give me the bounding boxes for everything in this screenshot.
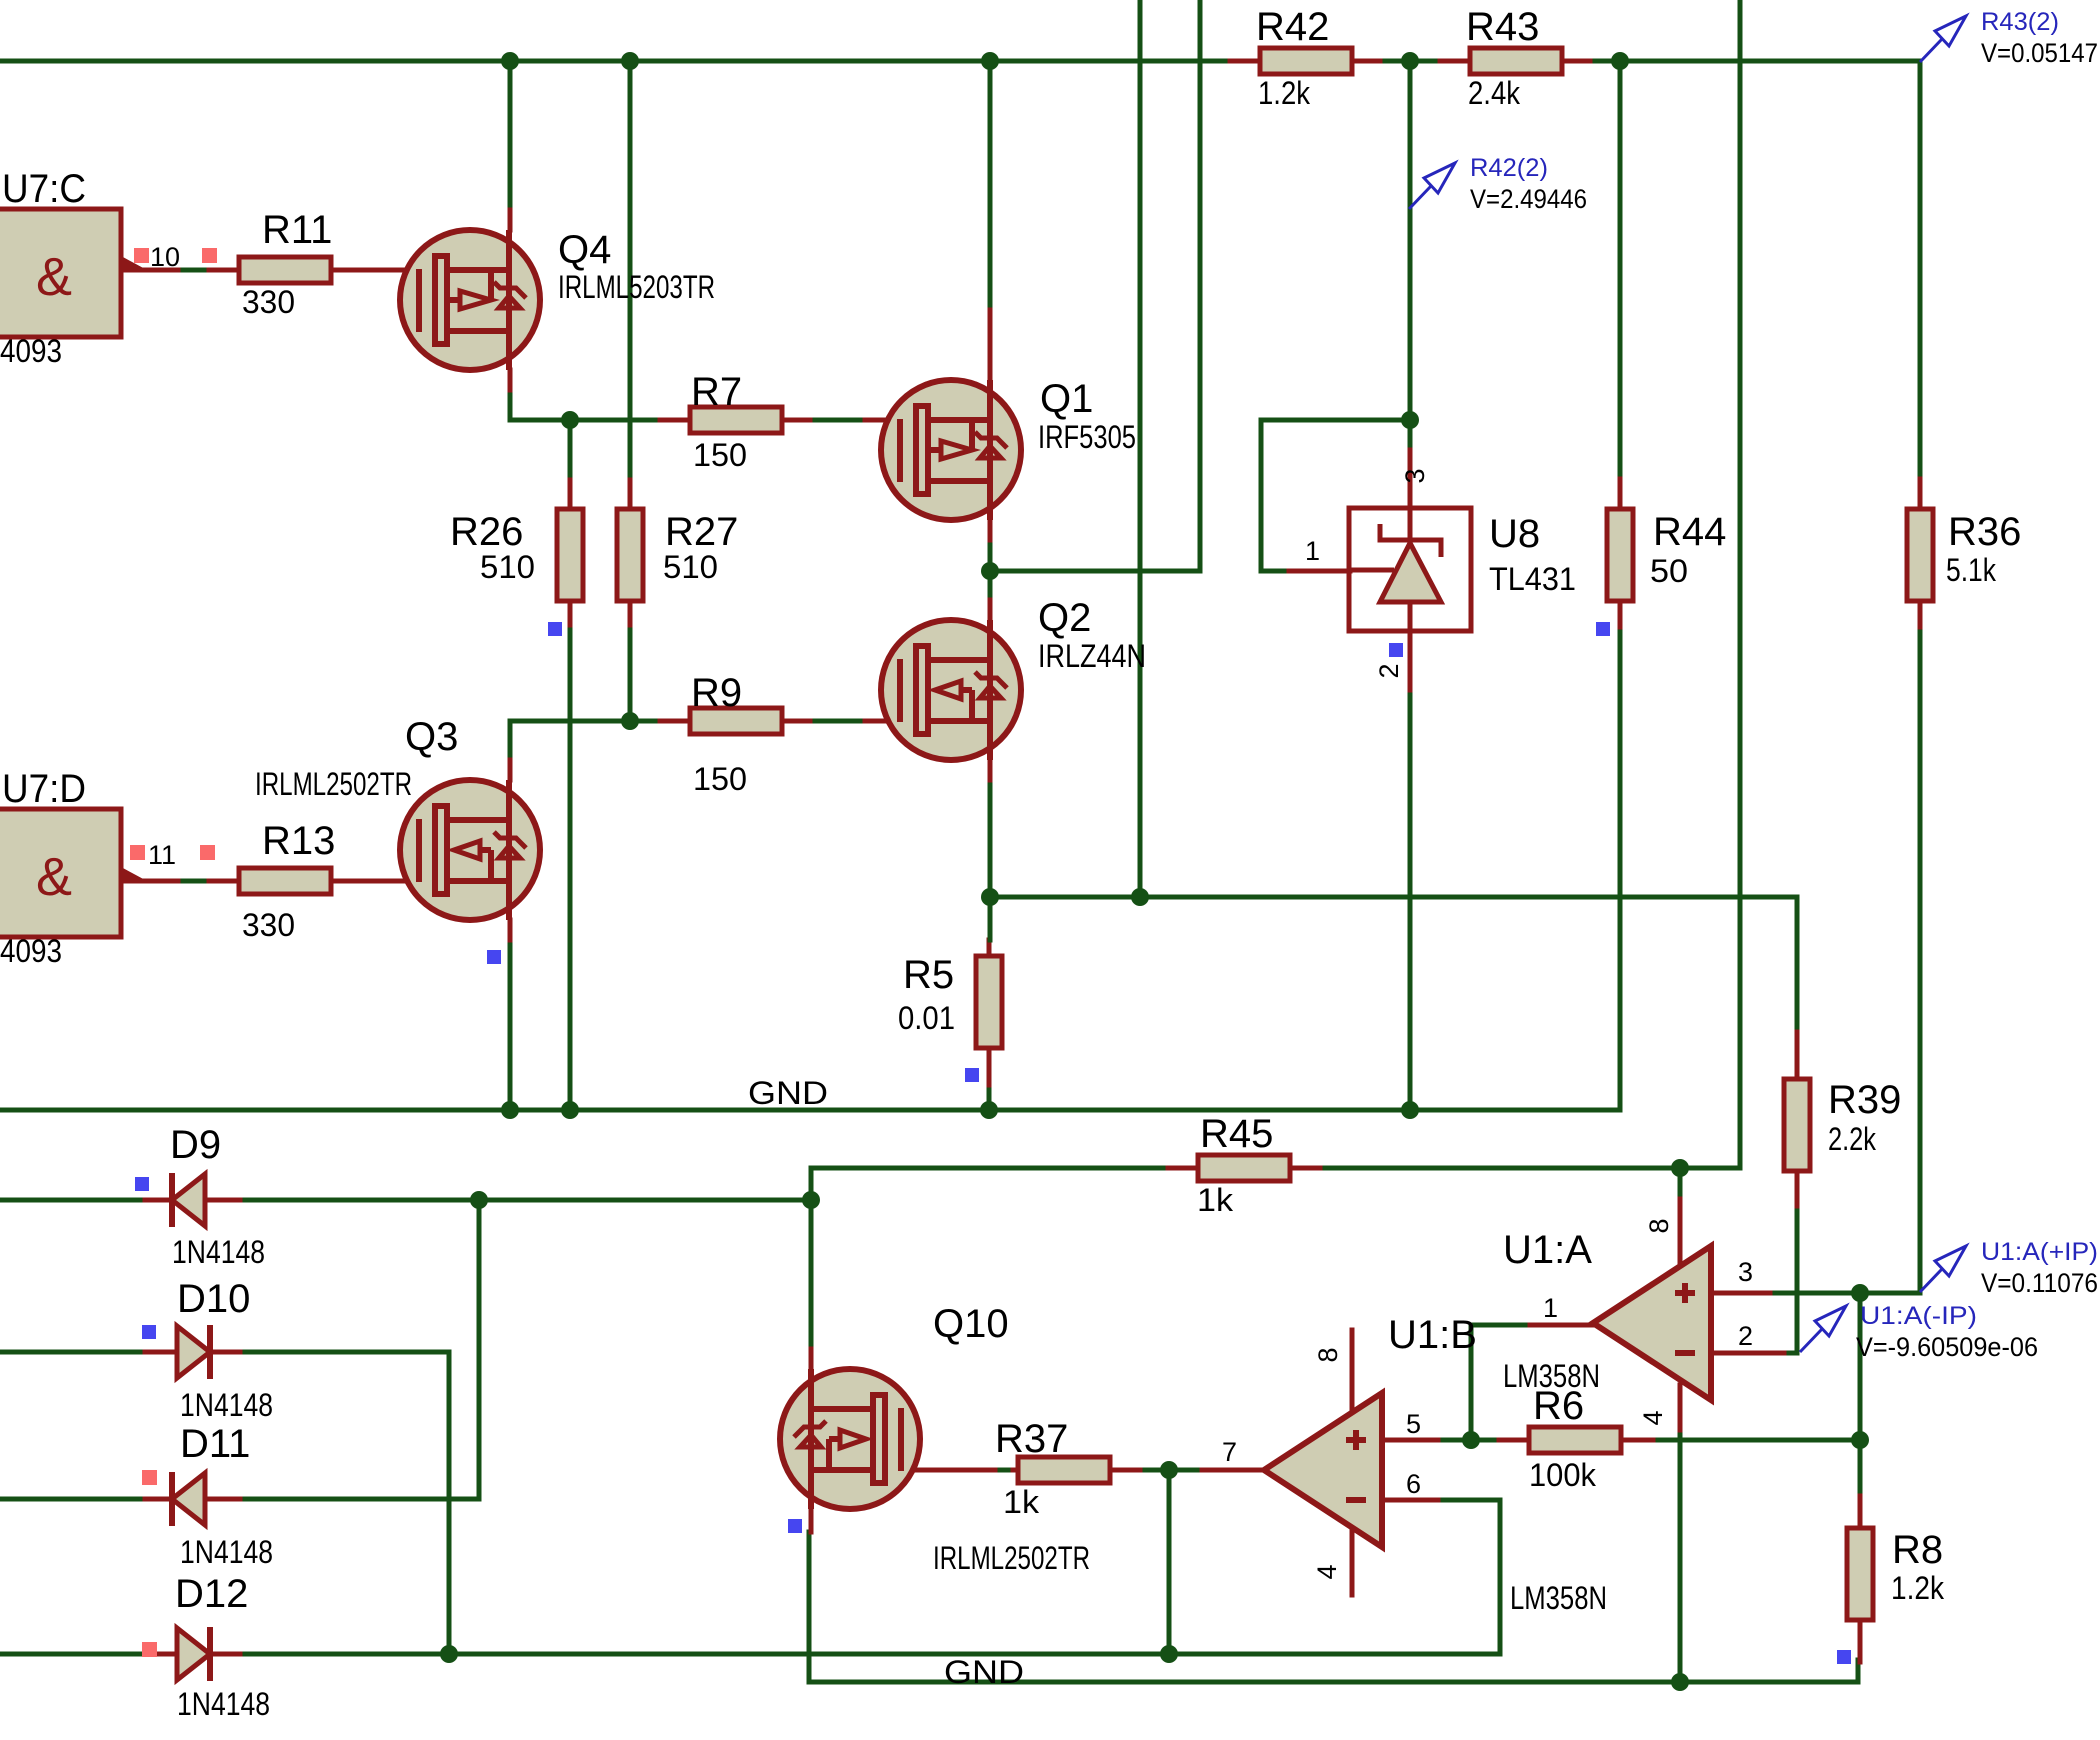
svg-text:10: 10 — [150, 242, 180, 272]
svg-text:6: 6 — [1406, 1469, 1421, 1499]
resistor R13 — [239, 819, 335, 943]
svg-text:1.2k: 1.2k — [1258, 75, 1311, 111]
svg-text:1k: 1k — [1003, 1484, 1040, 1520]
pin R27 bottom stub — [628, 600, 633, 625]
wire U1:B pin6 down to lower net — [1438, 1500, 1500, 1654]
wire R27 bottom to R9 row — [628, 625, 633, 721]
pin R26 top stub — [568, 480, 573, 509]
marker pin10 state b — [202, 248, 217, 263]
svg-text:2: 2 — [1374, 663, 1404, 678]
svg-text:Q10: Q10 — [933, 1302, 1009, 1346]
svg-text:2.4k: 2.4k — [1468, 75, 1521, 111]
resistor R8 — [1847, 1528, 1945, 1620]
svg-text:1N4148: 1N4148 — [180, 1534, 273, 1570]
pin U8 cathode pin3 — [1408, 450, 1413, 539]
svg-text:U7:D: U7:D — [2, 767, 86, 811]
node Q1/Q2 midpoint — [981, 562, 999, 580]
pin U1:B pin8 stub — [1350, 1330, 1355, 1414]
transistor Q10 IRLML2502TR (N-MOSFET, mirrored) — [780, 1369, 920, 1509]
transistor Q1 IRF5305 (P-MOSFET) — [881, 380, 1021, 520]
svg-text:5: 5 — [1406, 1409, 1421, 1439]
wire vertical from top edge x=1740 down to R45 net — [1738, 0, 1743, 1168]
probe U1:A(+IP) — [1920, 1238, 2098, 1298]
marker pin10 state a — [134, 248, 149, 263]
pin R43 left stub — [1440, 59, 1470, 64]
svg-text:U7:C: U7:C — [2, 167, 86, 211]
svg-text:R42: R42 — [1256, 5, 1329, 49]
node R9-R27 — [621, 712, 639, 730]
resistor R9 — [690, 671, 782, 797]
marker R44 blue — [1596, 622, 1610, 636]
probe R42(2) — [1409, 154, 1587, 214]
diode D11 1N4148 — [172, 1422, 273, 1570]
node U1:B pin5-R6-feedback — [1462, 1431, 1480, 1449]
svg-text:8: 8 — [1313, 1347, 1343, 1362]
svg-text:R13: R13 — [262, 819, 335, 863]
pin R6 left stub — [1499, 1438, 1529, 1443]
svg-text:1: 1 — [1305, 536, 1320, 566]
gate U7:C (4093 NAND) — [0, 167, 121, 369]
svg-text:Q1: Q1 — [1040, 377, 1093, 421]
svg-text:1N4148: 1N4148 — [180, 1387, 273, 1423]
node GND-Q3 — [501, 1101, 519, 1119]
pin R11 right to Q4 gate — [331, 268, 419, 273]
diode D9 1N4148 — [170, 1123, 265, 1270]
svg-text:Q4: Q4 — [558, 228, 611, 272]
svg-text:R43(2): R43(2) — [1981, 8, 2059, 36]
pin D9 right stub — [205, 1198, 240, 1203]
wire R37 right to pin7 node — [1140, 1468, 1202, 1473]
node rail-Q1 — [981, 52, 999, 70]
svg-text:IRF5305: IRF5305 — [1038, 419, 1136, 455]
resistor R26 — [450, 509, 583, 601]
pin R5 top stub — [987, 940, 992, 956]
gate U7:D (4093 NAND) — [0, 767, 121, 969]
wire R6 right to node — [1653, 1438, 1860, 1443]
svg-text:U8: U8 — [1489, 512, 1540, 556]
svg-text:V=0.05147: V=0.05147 — [1981, 38, 2098, 68]
pin U1:A pin1 stub — [1530, 1323, 1593, 1328]
svg-text:2: 2 — [1738, 1321, 1753, 1351]
wire U1:A pin3 branch down to R6/R8 node — [1858, 1293, 1863, 1496]
svg-text:Q3: Q3 — [405, 715, 458, 759]
svg-text:0.01: 0.01 — [898, 1000, 955, 1036]
svg-text:U1:B: U1:B — [1388, 1313, 1477, 1357]
pin R7 right stub — [780, 418, 810, 423]
resistor R42 — [1256, 5, 1352, 111]
svg-text:R11: R11 — [262, 208, 332, 252]
svg-text:330: 330 — [242, 907, 295, 943]
pin R5 bottom stub — [987, 1047, 992, 1085]
resistor R44 — [1607, 509, 1726, 601]
pin U1:A pin8 stub — [1678, 1199, 1683, 1265]
wire Q4 source to R7 row — [510, 390, 660, 420]
wire U7:D to R13 sliver — [183, 879, 209, 884]
svg-text:R7: R7 — [691, 370, 742, 414]
node D12-pin7 vertical — [1160, 1645, 1178, 1663]
wire Q10 gate green sliver — [995, 1468, 1013, 1473]
svg-text:GND: GND — [748, 1075, 828, 1111]
svg-text:V=-9.60509e-06: V=-9.60509e-06 — [1856, 1332, 2038, 1362]
node D10-D12 join — [440, 1645, 458, 1663]
pin Q3 source stub — [508, 920, 513, 940]
diode D12 1N4148 — [175, 1572, 270, 1722]
node Q2 source-R5 — [981, 888, 999, 906]
pin R26 bottom stub — [568, 600, 573, 625]
svg-text:U1:A: U1:A — [1503, 1228, 1592, 1272]
svg-text:R45: R45 — [1200, 1112, 1273, 1156]
resistor R27 — [617, 509, 738, 601]
svg-text:4093: 4093 — [0, 933, 62, 969]
pin D11 left stub — [145, 1497, 172, 1502]
probe U1:A(-IP) — [1800, 1302, 2038, 1362]
svg-text:D11: D11 — [180, 1422, 250, 1466]
svg-text:R27: R27 — [665, 510, 738, 554]
wire Q2 source down to sense node — [988, 780, 993, 940]
svg-text:330: 330 — [242, 284, 295, 320]
wire R9 to Q2 gate — [810, 719, 865, 724]
svg-text:TL431: TL431 — [1489, 561, 1576, 597]
node pin3 branch — [1851, 1284, 1869, 1302]
wire Q4 top drain to rail — [508, 61, 513, 210]
pin R42 left stub — [1230, 59, 1260, 64]
svg-text:IRLZ44N: IRLZ44N — [1038, 638, 1146, 674]
wire R6 left stub — [1471, 1438, 1499, 1443]
wire U1:B pin5 stub — [1438, 1438, 1471, 1443]
pin R6 right stub — [1622, 1438, 1653, 1443]
pin R39 bottom stub — [1795, 1174, 1800, 1206]
marker U8 pin2 blue — [1389, 643, 1403, 657]
marker R8 blue — [1837, 1650, 1851, 1664]
wire top supply rail left segment — [0, 59, 1230, 64]
node GND-R26 — [561, 1101, 579, 1119]
svg-text:Q2: Q2 — [1038, 596, 1091, 640]
svg-text:R9: R9 — [691, 671, 742, 715]
regulator U8 TL431 — [1349, 508, 1471, 631]
pin R45 right stub — [1290, 1166, 1320, 1171]
svg-text:R37: R37 — [995, 1417, 1068, 1461]
resistor R36 — [1907, 509, 2021, 601]
svg-text:510: 510 — [480, 549, 535, 585]
marker D10 blue — [142, 1325, 156, 1339]
node GND-R5 — [980, 1101, 998, 1119]
node rail-U8 cathode — [1401, 52, 1419, 70]
wire U1:A pin4 down to GND bottom — [1678, 1430, 1683, 1682]
wire Q3 source to GND rail — [508, 940, 513, 1110]
svg-text:D10: D10 — [177, 1277, 250, 1321]
svg-text:510: 510 — [663, 549, 718, 585]
probe R43(2) — [1920, 8, 2098, 68]
node R6-R8 node — [1851, 1431, 1869, 1449]
pin R43 right stub — [1560, 59, 1590, 64]
wire Q3 drain to R9 row — [510, 721, 660, 760]
svg-text:IRLML5203TR: IRLML5203TR — [558, 269, 715, 305]
op-amp U1:B LM358N — [1264, 1313, 1607, 1616]
marker D11 red — [142, 1470, 157, 1485]
wire R45 net row — [811, 1166, 1168, 1171]
wire vertical from top edge x=1140 to node — [1138, 0, 1143, 897]
transistor Q3 IRLML2502TR (N-MOSFET) — [400, 780, 540, 920]
pin R8 bottom stub — [1858, 1620, 1863, 1662]
pin Q3 drain stub — [508, 760, 513, 780]
node R45-pin8 — [1671, 1159, 1689, 1177]
pin Q2 drain stub — [988, 600, 993, 620]
pin Q2 source stub — [988, 760, 993, 780]
svg-text:4: 4 — [1312, 1564, 1342, 1579]
node sense-x1140 — [1131, 888, 1149, 906]
pin Q10 source stub — [809, 1509, 814, 1532]
pin U1:A pin3 stub — [1711, 1291, 1770, 1296]
pin D12 right stub — [210, 1652, 240, 1657]
wire D12 net bottom row — [0, 1652, 1500, 1657]
wire U8 pin2 down to GND rail — [1408, 690, 1413, 1110]
svg-text:D12: D12 — [175, 1572, 248, 1616]
transistor Q4 IRLML5203TR (P-MOSFET) — [400, 230, 540, 370]
marker Q10 source blue — [788, 1519, 802, 1533]
pin U8 ref pin1 — [1289, 569, 1350, 574]
pin R36 bottom stub — [1918, 600, 1923, 627]
pin D10 left stub — [145, 1350, 177, 1355]
pin R13 left stub — [209, 879, 239, 884]
pin U1:B pin4 stub — [1350, 1526, 1355, 1595]
pin 10 wedge of U7:C — [121, 256, 147, 270]
svg-text:150: 150 — [693, 761, 747, 797]
marker D12 red — [142, 1642, 157, 1657]
pin Q1 source stub — [988, 520, 993, 540]
node rail-R27 — [621, 52, 639, 70]
node D9-Q10 drain — [802, 1191, 820, 1209]
resistor R45 — [1197, 1112, 1290, 1218]
pin R42 right stub — [1350, 59, 1380, 64]
pin R8 top stub — [1858, 1496, 1863, 1528]
resistor R6 — [1529, 1384, 1621, 1493]
pin R39 top stub — [1795, 1032, 1800, 1079]
wire D9 net row — [0, 1198, 811, 1203]
pin U1:B pin6 stub — [1382, 1498, 1438, 1503]
wire pin7 node down to D12 net — [1167, 1470, 1172, 1654]
wire R44 top to rail — [1618, 61, 1623, 479]
svg-text:5.1k: 5.1k — [1946, 552, 1997, 588]
svg-text:1.2k: 1.2k — [1891, 1570, 1945, 1606]
resistor R7 — [690, 370, 782, 473]
node U8 cathode-ref tie — [1401, 411, 1419, 429]
pin Q4 source stub — [508, 370, 513, 390]
wire U1:A pin8 stub top — [1678, 1168, 1683, 1199]
svg-text:&: & — [36, 847, 72, 907]
resistor R39 — [1784, 1078, 1901, 1171]
wire R8 bottom to GND corner — [1856, 1660, 1861, 1682]
transistor Q2 IRLZ44N (N-MOSFET) — [881, 620, 1021, 760]
wire vertical from top edge x=1200 down and left to Q1/Q2 midpoint — [990, 0, 1200, 571]
svg-text:R43: R43 — [1466, 5, 1539, 49]
wire R36 top stub — [1918, 61, 1923, 479]
pin R13 right to Q3 gate — [331, 879, 419, 884]
pin U1:B pin7 stub — [1202, 1468, 1262, 1473]
resistor R37 — [995, 1417, 1110, 1520]
wire sense node row to R39 top — [990, 897, 1797, 1032]
svg-text:8: 8 — [1644, 1218, 1674, 1233]
svg-text:1N4148: 1N4148 — [172, 1234, 265, 1270]
node pin7-R37 — [1160, 1461, 1178, 1479]
pin R44 bottom stub — [1618, 600, 1623, 627]
pin R9 left stub — [660, 719, 690, 724]
wire GND rail — [0, 627, 1620, 1110]
svg-text:D9: D9 — [170, 1123, 221, 1167]
wire D10 net row — [0, 1350, 449, 1355]
pin R27 top stub — [628, 480, 633, 509]
svg-text:100k: 100k — [1529, 1457, 1597, 1493]
svg-text:1N4148: 1N4148 — [177, 1686, 270, 1722]
wire R36 lower vertical to U1:A pin3 corner — [1770, 627, 1920, 1293]
wire R7 to Q1 gate — [810, 418, 865, 423]
pin D12 left stub — [145, 1652, 177, 1657]
wire top rail between R42 and R43 — [1380, 59, 1440, 64]
pin Q10 gate to R37 — [901, 1468, 995, 1473]
pin R45 left stub — [1168, 1166, 1198, 1171]
pin Q2 gate stub — [865, 719, 900, 724]
svg-text:&: & — [36, 247, 72, 307]
wire R26 top branch — [568, 420, 573, 480]
pin D9 left stub — [145, 1198, 172, 1203]
pin D11 right stub — [205, 1497, 240, 1502]
wire D10 net down to D12 net — [447, 1352, 452, 1654]
node Q1 gate branch R26 — [561, 411, 579, 429]
wire R26 bottom to GND rail — [568, 625, 573, 1110]
svg-text:50: 50 — [1650, 553, 1688, 589]
svg-text:GND: GND — [944, 1654, 1024, 1690]
diode D10 1N4148 — [177, 1277, 273, 1423]
wire R45 right to pin8 node and top vertical — [1320, 1166, 1740, 1171]
wire R27 top to rail — [628, 61, 633, 480]
svg-text:IRLML2502TR: IRLML2502TR — [933, 1540, 1090, 1576]
pin D10 right stub — [210, 1350, 240, 1355]
svg-text:R42(2): R42(2) — [1470, 154, 1548, 182]
svg-text:R8: R8 — [1892, 1528, 1943, 1572]
node D9-D11 branch — [470, 1191, 488, 1209]
pin R36 top stub — [1918, 479, 1923, 509]
resistor R11 — [239, 208, 332, 320]
wire R5 bottom to GND rail — [987, 1085, 992, 1110]
marker R5 blue — [965, 1068, 979, 1082]
svg-text:R44: R44 — [1653, 510, 1726, 554]
svg-text:4: 4 — [1638, 1410, 1668, 1425]
svg-text:LM358N: LM358N — [1503, 1358, 1600, 1394]
svg-text:3: 3 — [1400, 468, 1430, 483]
marker R26 net blue — [548, 622, 562, 636]
node rail-R44 — [1611, 52, 1629, 70]
op-amp U1:A LM358N — [1503, 1228, 1711, 1400]
pin Q1 drain stub — [988, 310, 993, 380]
svg-text:R26: R26 — [450, 510, 523, 554]
pin R37 left stub — [1013, 1468, 1018, 1473]
wire U8 pin1 loop to cathode net — [1261, 420, 1410, 571]
pin U1:B pin5 stub — [1382, 1438, 1438, 1443]
pin R11 left stub — [209, 268, 239, 273]
wire U8 cathode net vertical — [1408, 61, 1413, 450]
pin U1:A pin4 stub — [1678, 1385, 1683, 1430]
wire R5 top green — [988, 897, 993, 940]
wire D11 net row — [0, 1497, 479, 1502]
pin Q1 gate stub — [865, 418, 900, 423]
pin R9 right stub — [780, 719, 810, 724]
svg-text:1k: 1k — [1197, 1182, 1234, 1218]
pin U1:A pin2 stub — [1711, 1351, 1784, 1356]
svg-text:V=2.49446: V=2.49446 — [1470, 184, 1587, 214]
svg-text:U1:A(-IP): U1:A(-IP) — [1860, 1302, 1977, 1330]
svg-text:R39: R39 — [1828, 1078, 1901, 1122]
pin U7:C output — [121, 268, 183, 273]
svg-text:4093: 4093 — [0, 333, 62, 369]
pin Q10 drain stub — [809, 1349, 814, 1369]
pin 11 wedge of U7:D — [121, 867, 147, 881]
svg-text:R5: R5 — [903, 953, 954, 997]
wire D9 net down to D11 net — [477, 1200, 482, 1499]
wire R45 net vertical through D9 node to Q10 drain — [809, 1168, 814, 1349]
svg-text:11: 11 — [148, 840, 176, 870]
svg-text:150: 150 — [693, 437, 747, 473]
svg-text:R36: R36 — [1948, 510, 2021, 554]
svg-text:V=0.11076: V=0.11076 — [1981, 1268, 2098, 1298]
svg-text:U1:A(+IP): U1:A(+IP) — [1981, 1238, 2098, 1266]
pin R44 top stub — [1618, 479, 1623, 509]
wire U7:C to R11 sliver — [183, 268, 209, 273]
node GND bottom-pin4 — [1671, 1673, 1689, 1691]
svg-text:3: 3 — [1738, 1257, 1753, 1287]
resistor R5 — [898, 953, 1002, 1048]
resistor R43 — [1466, 5, 1562, 111]
wire Q10 source to bottom GND rail — [809, 1532, 1858, 1682]
svg-text:IRLML2502TR: IRLML2502TR — [255, 766, 412, 802]
node GND-U8 pin2 — [1401, 1101, 1419, 1119]
svg-text:1: 1 — [1543, 1293, 1558, 1323]
pin Q4 drain stub — [508, 210, 513, 230]
pin U8 anode pin2 — [1408, 602, 1413, 690]
node rail-Q4 — [501, 52, 519, 70]
pin U7:D output — [121, 879, 183, 884]
svg-text:2.2k: 2.2k — [1828, 1121, 1877, 1157]
marker pin11 state b — [200, 845, 215, 860]
pin R7 left stub — [660, 418, 690, 423]
marker D9 blue — [135, 1177, 149, 1191]
wire R39 bottom to U1:A pin2 — [1784, 1206, 1797, 1353]
svg-text:LM358N: LM358N — [1510, 1580, 1607, 1616]
marker pin11 state a — [130, 845, 145, 860]
marker Q3 source blue — [487, 950, 501, 964]
svg-text:7: 7 — [1222, 1437, 1237, 1467]
wire top rail from R43 to right corner, down right side — [1590, 61, 1920, 479]
pin R37 right stub — [1110, 1468, 1140, 1473]
wire U1:A pin1 to U1:B pin5 feedback — [1471, 1325, 1530, 1440]
wire Q1 source to midpoint node — [988, 540, 993, 600]
wire Q1 drain to rail — [988, 61, 993, 310]
